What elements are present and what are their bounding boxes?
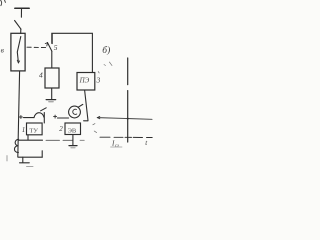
ground bbox=[46, 99, 55, 101]
main feeder wire (left, down to CT) bbox=[18, 71, 20, 157]
contact 5: arrowhead bbox=[45, 43, 47, 46]
relay 1 box bbox=[27, 123, 43, 135]
contact 5: blade bbox=[48, 43, 52, 52]
CT secondary winding bbox=[14, 139, 18, 152]
ground 2 bbox=[69, 145, 77, 147]
wire from ПЭ down bbox=[85, 90, 88, 121]
relay 2: plus sign bbox=[54, 115, 57, 118]
relay 2: wire bbox=[57, 117, 68, 119]
svg-text:в: в bbox=[1, 46, 5, 55]
relay 1: contact tail bbox=[41, 108, 47, 111]
relay 1: plus sign bbox=[19, 116, 22, 119]
svg-text:1: 1 bbox=[22, 126, 26, 134]
svg-text:ЭВ: ЭВ bbox=[68, 128, 77, 135]
contact 5: upper wire bbox=[51, 34, 53, 44]
svg-text:ТУ: ТУ bbox=[29, 128, 38, 135]
wire contact to resistor 4 bbox=[51, 52, 53, 69]
svg-text:2: 2 bbox=[59, 125, 63, 133]
resistor box 4 bbox=[45, 68, 59, 88]
arrowhead left bbox=[97, 116, 99, 118]
relay 2: coil circle bbox=[69, 106, 81, 118]
ground 3 (CT circuit) bbox=[22, 157, 24, 162]
caption sliver at bottom edge bbox=[27, 165, 34, 167]
CT bottom bus bbox=[18, 156, 42, 158]
relay circuit bus bbox=[19, 139, 43, 141]
relay 2: flag bbox=[78, 104, 83, 107]
terminal bar (top line) bbox=[15, 7, 29, 9]
relay 2 box bbox=[65, 123, 81, 135]
label a) panel (cut off at corner) bbox=[1, 0, 6, 5]
relay 1: right lead bbox=[43, 113, 45, 124]
dashed mechanical link bbox=[27, 46, 47, 48]
svg-text:5: 5 bbox=[54, 43, 58, 52]
graph axis (current axis) bbox=[127, 58, 129, 85]
svg-text:б): б) bbox=[102, 45, 110, 56]
specks upper graph bbox=[98, 62, 112, 73]
disconnector blade QS bbox=[15, 21, 21, 30]
svg-text:4: 4 bbox=[39, 71, 43, 80]
graph line I level bbox=[97, 118, 152, 120]
arrester box B bbox=[11, 33, 25, 71]
small label near arrow bbox=[93, 124, 97, 133]
stub to relay1 right pin bbox=[41, 151, 43, 157]
wire resistor to ground bbox=[51, 88, 53, 99]
relay 1: contact arc bbox=[34, 113, 44, 118]
relay 2: mark inside bbox=[73, 109, 77, 114]
corner to contact 2 bbox=[84, 120, 88, 122]
relay1 bottom tap bbox=[27, 135, 29, 140]
label I c3 bbox=[111, 140, 119, 148]
junction dot bbox=[127, 118, 129, 120]
wire into arrester box bbox=[20, 29, 22, 34]
relay 1: wire bbox=[24, 117, 35, 119]
time axis (dashed) bbox=[100, 136, 152, 138]
svg-text:ПЭ: ПЭ bbox=[79, 77, 90, 85]
svg-text:3: 3 bbox=[96, 75, 101, 84]
top wire to trip coil bbox=[52, 33, 93, 72]
svg-text:t: t bbox=[145, 139, 148, 147]
trip coil box ПЭ bbox=[77, 73, 95, 91]
stray mark left bbox=[6, 156, 8, 162]
wire from terminal bbox=[20, 8, 22, 17]
arrester arrow inside bbox=[17, 37, 21, 63]
relay2 bottom wire bbox=[72, 135, 74, 146]
